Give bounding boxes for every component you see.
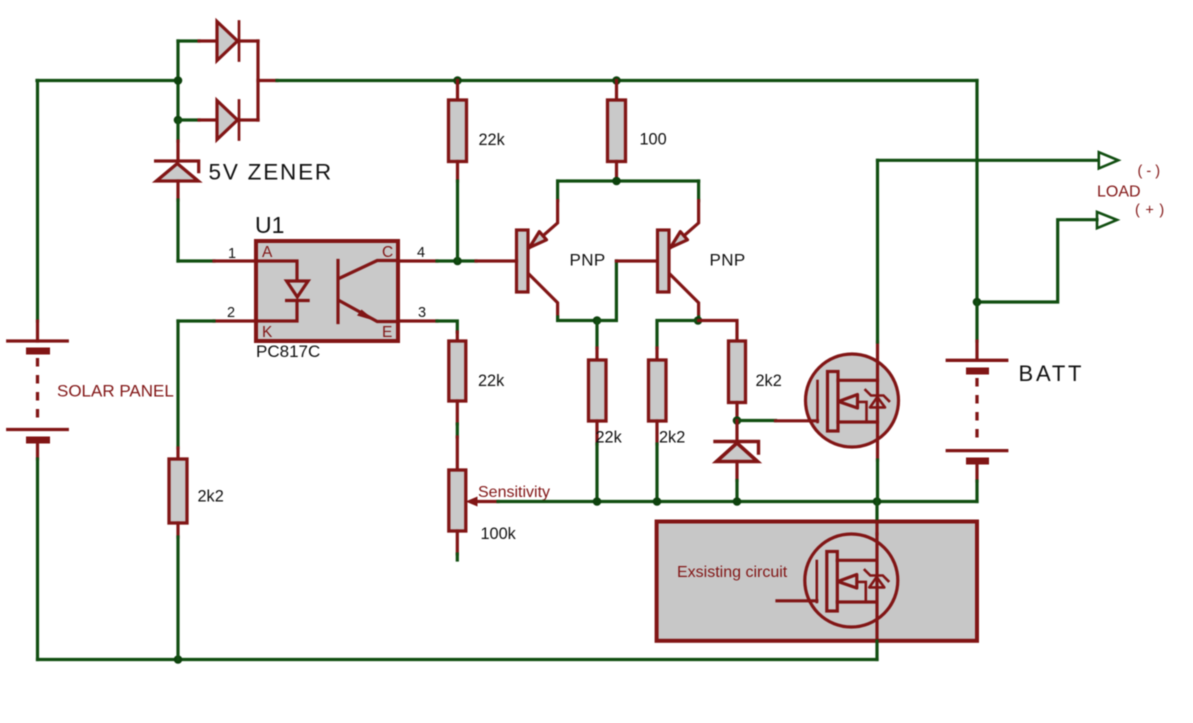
U1 internal LED triangle — [287, 281, 309, 297]
U1 internal LED anode path — [258, 261, 297, 281]
diode D2 cathode lead — [240, 118, 258, 121]
transistor Q1 emitter arrowhead — [529, 232, 546, 248]
node: junction rail / R5 — [653, 497, 662, 506]
svg-text:2k2: 2k2 — [659, 429, 685, 447]
svg-text:4: 4 — [417, 245, 425, 261]
diode D1 cathode lead — [240, 39, 258, 42]
wire: RV1 bottom stub — [456, 554, 459, 560]
SECTION2 — [255, 81, 746, 362]
svg-text:E: E — [382, 324, 392, 341]
node: junction top rail / diode rail — [174, 76, 183, 85]
node: junction rail / R4 — [593, 497, 602, 506]
resistor R7 22k top link — [456, 332, 459, 341]
zener D4 bottom lead — [735, 462, 738, 481]
wire: solar panel top lead — [36, 321, 39, 341]
transistor Q2 base lead — [616, 259, 656, 262]
resistor R4 22k bottom lead — [595, 421, 598, 444]
wire: top rail main — [277, 79, 977, 82]
transistor Q1 base bar — [517, 230, 529, 292]
wire: Q2 collector to node — [697, 317, 700, 321]
arrow terminal LOAD minus — [1099, 152, 1118, 168]
resistor R5 2k2 bottom lead — [655, 421, 658, 444]
battery BT2 BATT cell2 short plate — [970, 458, 986, 465]
potentiometer RV1 bottom lead — [456, 531, 459, 554]
wire: R1 bottom to pin4 node — [456, 181, 459, 261]
diode D1 triangle — [217, 22, 238, 61]
svg-text:K: K — [262, 324, 273, 341]
wire: Q3 source to sensitivity rail — [876, 460, 879, 502]
potentiometer RV1 wiper arrowhead — [466, 497, 478, 507]
svg-text:22k: 22k — [479, 131, 506, 149]
wire: lower diode anode — [178, 118, 199, 121]
diode D1 anode lead — [199, 39, 218, 42]
diode D2 anode lead — [199, 118, 218, 121]
SECTION3 — [449, 321, 977, 561]
wire: emitter rail — [558, 179, 699, 182]
svg-text:3: 3 — [418, 305, 426, 321]
mosfet Q3 drain-source vertical — [876, 342, 879, 460]
wire: zener branch green — [176, 120, 179, 141]
wire: right rail vertical — [975, 81, 978, 303]
diode D1 cathode bar — [238, 22, 241, 61]
battery BT2 BATT cell2 long plate — [947, 449, 1007, 452]
svg-text:22k: 22k — [478, 372, 505, 390]
mosfet Q4 body circle — [805, 534, 898, 627]
svg-text:SOLAR PANEL: SOLAR PANEL — [57, 382, 174, 401]
mosfet Q3 substrate link — [858, 402, 867, 422]
mosfet Q4 body diode bar — [865, 570, 889, 581]
U1 internal collector diagonal — [340, 261, 398, 279]
resistor R2 100 top lead — [615, 81, 618, 101]
node: junction Q1 collector / Q2 base / R4 — [593, 316, 602, 325]
wire: Q1 emitter drop green — [556, 181, 559, 201]
wire: R3 to bottom rail — [176, 537, 179, 660]
mosfet Q3 channel bar — [828, 372, 839, 432]
U1 pin 4 lead — [398, 259, 437, 262]
zener D4 cathode bar with hook — [715, 442, 759, 454]
transistor Q1 base lead — [476, 259, 517, 262]
node: junction gate net — [733, 416, 742, 425]
wire: top rail left segment — [37, 79, 178, 82]
node: junction bottom rail / R 2k2 — [174, 655, 183, 664]
battery BT2 top lead — [975, 341, 978, 360]
resistor R5 2k2 body — [649, 360, 667, 421]
wire: Q4 bottom to bottom rail — [875, 641, 878, 660]
U1 internal phototransistor bar — [336, 261, 339, 323]
resistor R6 2k2 body — [729, 341, 746, 403]
wire: bottom rail — [38, 658, 878, 661]
op-coupler U1 body — [256, 241, 398, 341]
mosfet Q4 gate plate — [815, 561, 818, 602]
battery BT2 BATT dashed body — [975, 378, 978, 442]
wire: D4 to sensitivity rail — [735, 481, 738, 502]
resistor R7 22k bottom lead — [456, 401, 459, 424]
svg-text:2: 2 — [227, 305, 235, 321]
svg-text:22k: 22k — [596, 429, 623, 447]
svg-text:A: A — [262, 244, 273, 261]
svg-text:C: C — [382, 244, 393, 261]
potentiometer RV1 body — [449, 470, 466, 531]
resistor R3 2k2 body — [169, 459, 187, 523]
diode D2 triangle — [217, 101, 238, 140]
wire: sensitivity rail — [498, 500, 977, 503]
mosfet Q3 drain tap — [838, 420, 878, 423]
resistor R3 2k2 bottom lead — [176, 523, 179, 537]
transistor Q2 emitter lead — [670, 201, 698, 248]
wire: R4 to sensitivity rail — [595, 444, 598, 502]
wire: node to R5 — [657, 321, 699, 349]
U1 pin 2 lead — [214, 319, 256, 322]
node: junction pin4 / R1 — [453, 257, 462, 266]
mosfet Q4 substrate link — [857, 582, 866, 602]
resistor R2 100 bottom lead — [615, 162, 618, 182]
wire: left vertical rail (solar panel +) — [36, 81, 39, 322]
mosfet Q4 body diode triangle — [869, 577, 884, 587]
zener D4 top lead — [735, 421, 738, 442]
svg-text:U1: U1 — [255, 212, 284, 238]
svg-text:BATT: BATT — [1019, 361, 1085, 386]
mosfet Q3 gate lead — [776, 419, 818, 422]
battery BT2 bottom lead — [975, 461, 978, 481]
wire: battery bottom to sensitivity rail — [975, 481, 978, 502]
svg-text:1: 1 — [228, 246, 236, 262]
svg-text:100k: 100k — [481, 525, 517, 543]
wire: U1 pin2 horizontal — [178, 319, 214, 322]
node: junction Q2 collector / R5 / R6 — [694, 316, 703, 325]
wire: load plus link — [977, 220, 1097, 302]
diode D2 cathode bar — [238, 101, 241, 140]
resistor R3 2k2 top lead — [176, 448, 179, 459]
wire: load minus rail — [878, 159, 1099, 162]
mosfet Q4 channel bar — [827, 552, 838, 612]
wire: solar panel bottom lead — [36, 440, 39, 459]
wire: R4 top from node — [595, 321, 598, 349]
wire: zener to U1 pin1 vertical — [176, 200, 179, 261]
potentiometer RV1 wiper shaft — [478, 500, 499, 503]
battery BT1 SOLAR PANEL cell1 long plate — [8, 339, 68, 342]
svg-text:( - ): ( - ) — [1138, 164, 1161, 180]
node: junction top rail / R1 22k — [453, 76, 462, 85]
svg-text:LOAD: LOAD — [1097, 184, 1141, 201]
mosfet Q4 drain tap — [837, 600, 877, 603]
mosfet Q4 drain vertical upper — [875, 522, 878, 535]
resistor R4 22k top lead — [595, 348, 598, 360]
wire: upper diode anode — [178, 39, 199, 42]
node: junction rail / Q3 source — [873, 497, 882, 506]
battery BT1 SOLAR PANEL dashed body — [36, 358, 39, 422]
U1 pin 1 lead — [214, 259, 256, 262]
mosfet Q3 source tap — [838, 379, 878, 382]
wire: Q1 collector to node — [558, 317, 597, 321]
wire: rail down into box — [875, 502, 878, 522]
resistor R6 2k2 bottom lead — [735, 403, 738, 421]
wire: U1 pin1 horizontal — [178, 259, 214, 262]
mosfet Q4 substrate arrow — [838, 575, 857, 589]
wire: pin3 corner — [437, 321, 457, 332]
zener D3 triangle — [156, 164, 198, 182]
zener D3 top lead — [176, 141, 179, 161]
battery BT2 BATT cell1 short plate — [970, 368, 986, 375]
wire: Q2 emitter drop green — [697, 181, 700, 201]
resistor R2 100 body — [608, 100, 626, 162]
wire: Q2 base link — [597, 261, 616, 321]
U1 internal LED cathode path — [258, 301, 297, 322]
wire: gate net horizontal — [737, 419, 776, 422]
resistor R5 2k2 top lead — [655, 348, 658, 360]
wire: Q3 top to load rail — [876, 160, 879, 342]
wire: diode output tap — [258, 79, 277, 82]
transistor Q1 emitter lead — [529, 201, 557, 248]
mosfet Q3 substrate arrow — [839, 395, 858, 409]
mosfet Q3 gate plate — [816, 381, 819, 422]
node: junction emitter rail / R2 — [612, 177, 621, 186]
U1 pin 3 lead — [398, 319, 437, 322]
wire: diode input rail vertical — [176, 41, 179, 120]
resistor R1 22k body — [449, 100, 467, 162]
U1 internal emitter diagonal — [340, 301, 398, 322]
resistor R1 22k bottom lead — [456, 162, 459, 182]
node: junction rail / D4 — [733, 497, 742, 506]
battery BT2 BATT cell1 long plate — [947, 359, 1007, 362]
node: junction diode rail / lower diode — [174, 116, 183, 125]
mosfet Q3 body circle — [806, 354, 899, 447]
svg-text:2k2: 2k2 — [756, 372, 782, 390]
battery BT1 SOLAR PANEL cell2 long plate — [8, 428, 68, 431]
svg-text:PNP: PNP — [710, 251, 746, 270]
svg-text:2k2: 2k2 — [198, 488, 224, 506]
resistor R7 22k body — [449, 341, 466, 401]
svg-text:Exsisting circuit: Exsisting circuit — [677, 564, 788, 581]
node: junction top rail / R2 100 — [612, 76, 621, 85]
mosfet Q3 body diode triangle — [870, 397, 885, 407]
svg-text:( + ): ( + ) — [1135, 203, 1165, 219]
battery BT1 SOLAR PANEL cell1 short plate — [30, 348, 47, 355]
existing circuit box — [657, 522, 977, 641]
resistor R4 22k body — [589, 360, 607, 421]
wire: left vertical rail lower — [36, 459, 39, 660]
potentiometer RV1 top lead — [456, 437, 459, 470]
svg-text:PNP: PNP — [570, 251, 606, 270]
node: junction right rail / load plus — [973, 298, 982, 307]
wire: right rail to battery — [975, 302, 978, 341]
U1 internal LED cathode bar — [287, 299, 309, 302]
resistor R6 2k2 top link — [699, 321, 737, 342]
svg-text:100: 100 — [640, 131, 667, 149]
mosfet Q3 body diode bar — [866, 390, 890, 401]
transistor Q1 collector lead — [529, 275, 557, 317]
transistor Q2 emitter arrowhead — [670, 232, 687, 248]
zener D3 cathode bar with hook — [156, 161, 199, 172]
svg-text:5V ZENER: 5V ZENER — [209, 160, 333, 185]
arrow terminal LOAD plus — [1097, 212, 1117, 228]
wire: diode output bar vertical — [256, 41, 259, 120]
wire: R7 to RV1 — [456, 424, 459, 437]
mosfet Q4 drain-source vertical — [875, 534, 878, 641]
transistor Q2 base bar — [658, 230, 670, 292]
zener D3 bottom lead — [176, 181, 179, 200]
SECTION4 — [657, 81, 1165, 660]
battery BT1 SOLAR PANEL cell2 short plate — [30, 437, 47, 444]
transistor Q2 collector lead — [670, 275, 698, 317]
resistor R1 22k top lead — [456, 81, 459, 101]
wire: R5 to sensitivity rail — [655, 444, 658, 502]
wire: pin4 to Q1 base — [437, 259, 476, 262]
svg-text:Sensitivity: Sensitivity — [478, 484, 550, 501]
U1 internal emitter arrowhead — [357, 310, 376, 322]
zener D4 triangle — [717, 443, 758, 462]
mosfet Q4 source tap — [837, 559, 877, 562]
mosfet Q4 gate lead (stub) — [777, 599, 817, 602]
svg-text:PC817C: PC817C — [256, 342, 320, 361]
wire: pin2 down to R3 — [176, 321, 179, 448]
